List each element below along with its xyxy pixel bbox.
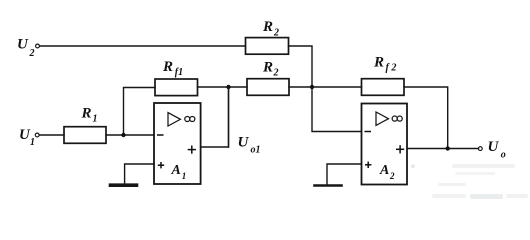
resistor R2 (top) <box>246 38 289 55</box>
A2 plus input sign <box>365 164 371 166</box>
svg-text:1: 1 <box>182 171 187 181</box>
watermark smudge bottom right <box>411 164 528 199</box>
svg-text:R: R <box>162 59 173 75</box>
svg-text:U: U <box>17 37 29 53</box>
node dot A1 inverting <box>121 133 125 137</box>
svg-text:2: 2 <box>273 68 279 79</box>
node dot output <box>446 146 450 150</box>
svg-text:f 2: f 2 <box>386 63 397 74</box>
A1 plus input sign <box>158 164 164 166</box>
terminal U2 <box>36 44 40 48</box>
plus minus signs <box>157 132 404 169</box>
svg-text:o1: o1 <box>251 145 261 156</box>
svg-text:2: 2 <box>273 28 279 39</box>
wire node down to A2 minus input <box>312 87 362 132</box>
ground A2 bar <box>315 184 342 187</box>
wire R2 mid to Rf2 through node <box>289 86 362 88</box>
A1 plus output sign <box>188 149 196 151</box>
wire A1 plus input from ground <box>125 164 154 184</box>
wire Rf1 left down to A1 minus node <box>124 88 156 136</box>
terminal U1 <box>35 133 39 137</box>
node dot A2 inverting <box>310 85 314 89</box>
A1 triangle <box>168 113 180 126</box>
A1 infinity <box>185 116 190 121</box>
svg-text:A: A <box>171 163 181 178</box>
A2 triangle <box>376 112 389 125</box>
op-amp A1 box <box>154 103 201 184</box>
wire A2 output to terminal <box>408 148 479 150</box>
A2 minus input sign <box>365 131 372 133</box>
svg-text:2: 2 <box>389 171 395 181</box>
svg-text:f1: f1 <box>175 67 183 78</box>
svg-text:U: U <box>238 134 250 150</box>
wire node down to A1 output <box>228 87 230 147</box>
wire Rf1 right to R2 mid with node <box>198 86 248 88</box>
svg-text:1: 1 <box>93 114 98 125</box>
resistor R2 (middle) <box>247 79 289 96</box>
op-amp A2 box <box>362 104 408 185</box>
svg-text:R: R <box>262 59 273 75</box>
svg-text:2: 2 <box>29 48 35 59</box>
svg-text:U: U <box>488 139 500 155</box>
wire A1 output up to node <box>201 87 229 147</box>
wire U1 to R1 <box>39 134 64 136</box>
wire R1 to A1 minus <box>106 134 154 136</box>
svg-text:R: R <box>262 19 273 35</box>
A2 infinity <box>392 116 397 121</box>
node dot Uo1 top <box>226 85 230 89</box>
svg-text:R: R <box>373 54 384 70</box>
wire Rf2 right to corner down to output <box>404 87 448 149</box>
infinity symbols <box>185 116 403 122</box>
resistor R1 <box>64 127 106 144</box>
resistor Rf1 <box>155 79 198 96</box>
wire A2 plus input from ground <box>327 164 362 185</box>
wire U2 to R2 top <box>40 45 246 47</box>
ground A1 bar <box>111 183 137 187</box>
resistor Rf2 <box>362 79 405 96</box>
terminal Uo <box>478 147 482 151</box>
A1 minus input sign <box>157 134 164 136</box>
svg-text:R: R <box>81 105 92 121</box>
svg-text:A: A <box>379 163 389 178</box>
svg-text:o: o <box>501 150 506 161</box>
wire R2 top right to corner <box>289 46 313 87</box>
svg-text:1: 1 <box>30 137 35 148</box>
A2 plus output sign <box>396 148 404 150</box>
